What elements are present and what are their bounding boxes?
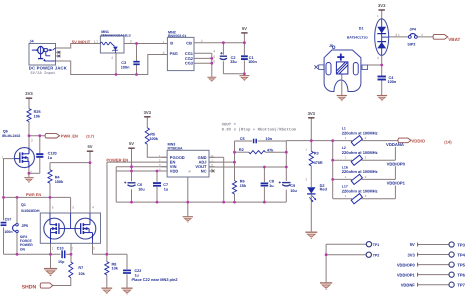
svg-text:220ohm at 100MHz: 220ohm at 100MHz <box>342 169 378 174</box>
svg-text:JP4: JP4 <box>409 27 417 31</box>
svg-text:15p: 15p <box>58 260 65 264</box>
svg-text:SI1563EDH: SI1563EDH <box>21 209 40 213</box>
svg-text:100n: 100n <box>121 66 130 70</box>
svg-text:5V: 5V <box>242 26 247 31</box>
svg-text:5V: 5V <box>129 141 134 146</box>
svg-text:3V3: 3V3 <box>25 91 33 96</box>
svg-text:(3,7): (3,7) <box>86 135 95 139</box>
svg-text:D1: D1 <box>359 26 364 30</box>
svg-text:3V3: 3V3 <box>378 3 386 8</box>
svg-text:VDDIOP0: VDDIOP0 <box>397 262 416 267</box>
svg-text:15k: 15k <box>240 184 247 188</box>
svg-text:VDDIOP1: VDDIOP1 <box>387 181 406 186</box>
svg-text:1u: 1u <box>269 184 274 188</box>
svg-text:C8: C8 <box>269 179 274 183</box>
svg-text:JP5: JP5 <box>21 224 28 228</box>
svg-text:3: 3 <box>31 138 33 142</box>
svg-text:2: 2 <box>30 170 32 174</box>
svg-text:R7: R7 <box>78 266 83 270</box>
svg-text:BNX002-01: BNX002-01 <box>168 34 186 38</box>
svg-text:(14): (14) <box>444 140 452 145</box>
svg-text:33u: 33u <box>230 60 237 64</box>
svg-text:VOUT =: VOUT = <box>222 123 237 128</box>
svg-text:10n: 10n <box>266 137 273 141</box>
svg-text:2: 2 <box>421 33 423 37</box>
svg-text:470R: 470R <box>314 161 323 165</box>
svg-text:10k: 10k <box>78 272 85 276</box>
svg-text:3 1: 3 1 <box>395 33 400 37</box>
svg-text:C6: C6 <box>137 183 142 187</box>
svg-text:100k: 100k <box>149 137 158 141</box>
svg-text:5V: 5V <box>87 144 92 149</box>
svg-text:1u: 1u <box>164 187 169 191</box>
svg-text:IRLML2402: IRLML2402 <box>2 134 21 138</box>
svg-text:C9: C9 <box>290 184 295 188</box>
svg-text:R6: R6 <box>240 179 245 183</box>
svg-text:1u: 1u <box>48 156 53 160</box>
svg-text:VDDIOP1: VDDIOP1 <box>397 272 416 277</box>
svg-text:3: 3 <box>130 40 132 44</box>
svg-text:ZEN056V230A16LS: ZEN056V230A16LS <box>101 33 132 37</box>
svg-text:C10: C10 <box>57 247 64 251</box>
svg-text:1: 1 <box>96 40 98 44</box>
svg-text:10u: 10u <box>138 188 145 192</box>
svg-text:100n: 100n <box>248 60 257 64</box>
svg-text:Place C22 near MN3 pin2: Place C22 near MN3 pin2 <box>132 277 179 282</box>
svg-text:R25: R25 <box>34 110 41 114</box>
svg-text:VBAT: VBAT <box>448 37 460 42</box>
svg-text:1: 1 <box>52 246 54 250</box>
svg-text:1: 1 <box>163 40 165 44</box>
svg-text:SIP2: SIP2 <box>407 42 415 46</box>
svg-text:RT9818A: RT9818A <box>168 146 183 150</box>
svg-text:BAT54CLT1G: BAT54CLT1G <box>347 36 368 40</box>
svg-text:1: 1 <box>2 155 4 159</box>
svg-text:R2: R2 <box>239 148 244 152</box>
svg-text:5V: 5V <box>410 242 415 247</box>
svg-text:5: 5 <box>213 55 215 59</box>
svg-text:Q1: Q1 <box>21 203 26 207</box>
svg-text:C3: C3 <box>121 61 126 65</box>
svg-text:PSG: PSG <box>170 51 178 56</box>
svg-text:C5: C5 <box>240 137 245 141</box>
svg-text:TP2: TP2 <box>373 254 380 258</box>
svg-text:4: 4 <box>92 206 94 210</box>
svg-text:220ohm at 100MHz: 220ohm at 100MHz <box>342 130 378 135</box>
svg-text:TP1: TP1 <box>373 243 380 247</box>
svg-text:100n: 100n <box>4 230 13 234</box>
svg-text:47k: 47k <box>267 148 274 152</box>
svg-text:2: 2 <box>201 39 203 43</box>
svg-text:TP5: TP5 <box>457 262 465 267</box>
svg-text:100k: 100k <box>55 180 64 184</box>
svg-text:220ohm at 100MHz: 220ohm at 100MHz <box>342 188 378 193</box>
svg-text:3: 3 <box>163 51 165 55</box>
svg-text:DC POWER JACK: DC POWER JACK <box>29 65 67 70</box>
svg-text:0.8V x (Rtop + Rbottom)/Rbotto: 0.8V x (Rtop + Rbottom)/Rbottom <box>222 128 297 133</box>
svg-text:10k: 10k <box>34 115 41 119</box>
svg-text:C57: C57 <box>5 218 12 222</box>
svg-text:2: 2 <box>71 246 73 250</box>
svg-text:SHDN: SHDN <box>22 285 37 291</box>
svg-text:2: 2 <box>111 56 113 60</box>
svg-text:J6: J6 <box>329 44 333 48</box>
svg-text:220ohm at 100MHz: 220ohm at 100MHz <box>342 150 378 155</box>
svg-text:TP4: TP4 <box>457 252 465 257</box>
svg-text:10u: 10u <box>290 189 297 193</box>
svg-text:B: B <box>170 41 173 46</box>
svg-text:3V3: 3V3 <box>408 252 416 257</box>
svg-text:VDD: VDD <box>170 169 179 174</box>
svg-text:3V3: 3V3 <box>308 111 316 116</box>
svg-text:4: 4 <box>213 50 215 54</box>
svg-text:Q6: Q6 <box>3 130 8 134</box>
svg-text:5V INPUT: 5V INPUT <box>72 39 91 44</box>
svg-text:5: 5 <box>72 206 74 210</box>
svg-text:3: 3 <box>93 246 95 250</box>
svg-text:6: 6 <box>52 206 54 210</box>
svg-text:5V/2A Input: 5V/2A Input <box>30 71 55 76</box>
svg-text:PWR EN: PWR EN <box>26 193 41 197</box>
svg-text:TP6: TP6 <box>457 272 465 277</box>
svg-text:CG3: CG3 <box>185 61 194 66</box>
svg-text:NC: NC <box>201 169 207 174</box>
svg-text:5: 5 <box>188 171 192 173</box>
svg-text:3V3: 3V3 <box>144 110 152 115</box>
svg-text:Red: Red <box>320 188 328 192</box>
svg-text:VDDIO: VDDIO <box>411 138 425 143</box>
svg-text:TP7: TP7 <box>457 283 465 288</box>
svg-text:VDDIOP0: VDDIOP0 <box>387 161 406 166</box>
svg-text:POWER EN: POWER EN <box>106 158 128 163</box>
svg-text:VDDANA: VDDANA <box>386 142 404 147</box>
svg-text:VDDNF: VDDNF <box>401 282 416 287</box>
svg-text:10k: 10k <box>112 266 119 270</box>
svg-text:ON: ON <box>20 247 26 251</box>
svg-text:TP3: TP3 <box>457 242 465 247</box>
svg-text:100n: 100n <box>388 80 397 84</box>
svg-text:CB: CB <box>186 40 192 45</box>
svg-text:6: 6 <box>213 60 215 64</box>
svg-text:PWR_EN: PWR_EN <box>61 134 78 139</box>
svg-text:R3: R3 <box>314 152 319 156</box>
